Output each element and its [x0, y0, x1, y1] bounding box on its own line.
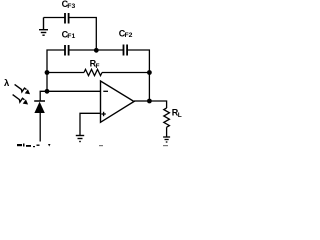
wire: node D to RL top: [149, 101, 166, 108]
label RF: [90, 59, 100, 71]
svg-text:L: L: [178, 112, 182, 119]
svg-text:λ: λ: [4, 78, 10, 89]
wire: node A to RF left lead: [47, 72, 84, 74]
wire: CF3 right plate to node M: [69, 18, 97, 50]
wire: RF right lead to node B: [102, 72, 149, 74]
node B (junction, output net top): [147, 70, 152, 75]
label CF2: [119, 28, 133, 39]
wire: node C to photodiode cathode: [40, 91, 47, 101]
op-amp U1: [101, 81, 135, 122]
capacitor CF2: [124, 45, 128, 56]
resistor RF: [84, 69, 102, 75]
node D (output junction): [147, 99, 152, 104]
wire: node A up to CF1 left plate: [47, 50, 65, 72]
wire: CF1 right plate to node M: [69, 49, 97, 51]
op-amp U1 inverting pin marker (-): [103, 90, 108, 92]
wire: GND1 to CF3 left plate: [44, 17, 66, 19]
ground GND2 (non-inverting input): [76, 136, 84, 142]
wire: CF2 right plate down to node B: [127, 50, 149, 72]
wire: op-amp output to node D: [134, 100, 149, 102]
light arrow 1 (photon into D1): [15, 84, 27, 92]
svg-text:F: F: [96, 63, 100, 70]
capacitor CF1: [65, 45, 69, 56]
resistor RL: [164, 108, 170, 127]
svg-text:F2: F2: [125, 32, 133, 39]
wire: RL bottom to GND3: [166, 127, 168, 137]
svg-text:F3: F3: [67, 3, 75, 10]
caption fragment (cut-off text at bottom edge): [17, 144, 168, 148]
svg-text:F1: F1: [67, 33, 75, 40]
ground GND3 (load): [163, 137, 170, 142]
node C (junction at inverting input): [45, 89, 50, 94]
wire: node B down to node D: [148, 73, 150, 102]
wire: node A down to node C: [46, 73, 48, 92]
label CF1: [62, 30, 76, 41]
wire: node M to CF2 left plate: [96, 49, 123, 51]
ground GND1 (top left, at CF3 input): [39, 18, 48, 36]
node A (junction, inverting-input net top): [45, 70, 50, 75]
light arrow 2 (photon into D1): [13, 95, 25, 103]
label CF3: [62, 0, 76, 10]
wire: node C to op-amp inverting input: [47, 90, 101, 92]
capacitor CF3: [65, 13, 69, 24]
photodiode D1: [34, 101, 45, 113]
label RL: [172, 107, 182, 119]
junction node M (between CF1 and CF2): [94, 48, 99, 53]
wire: photodiode anode to bottom: [39, 113, 41, 142]
op-amp U1 non-inverting pin marker (+): [101, 112, 105, 116]
wire: op-amp non-inverting input to GND2: [80, 113, 101, 135]
